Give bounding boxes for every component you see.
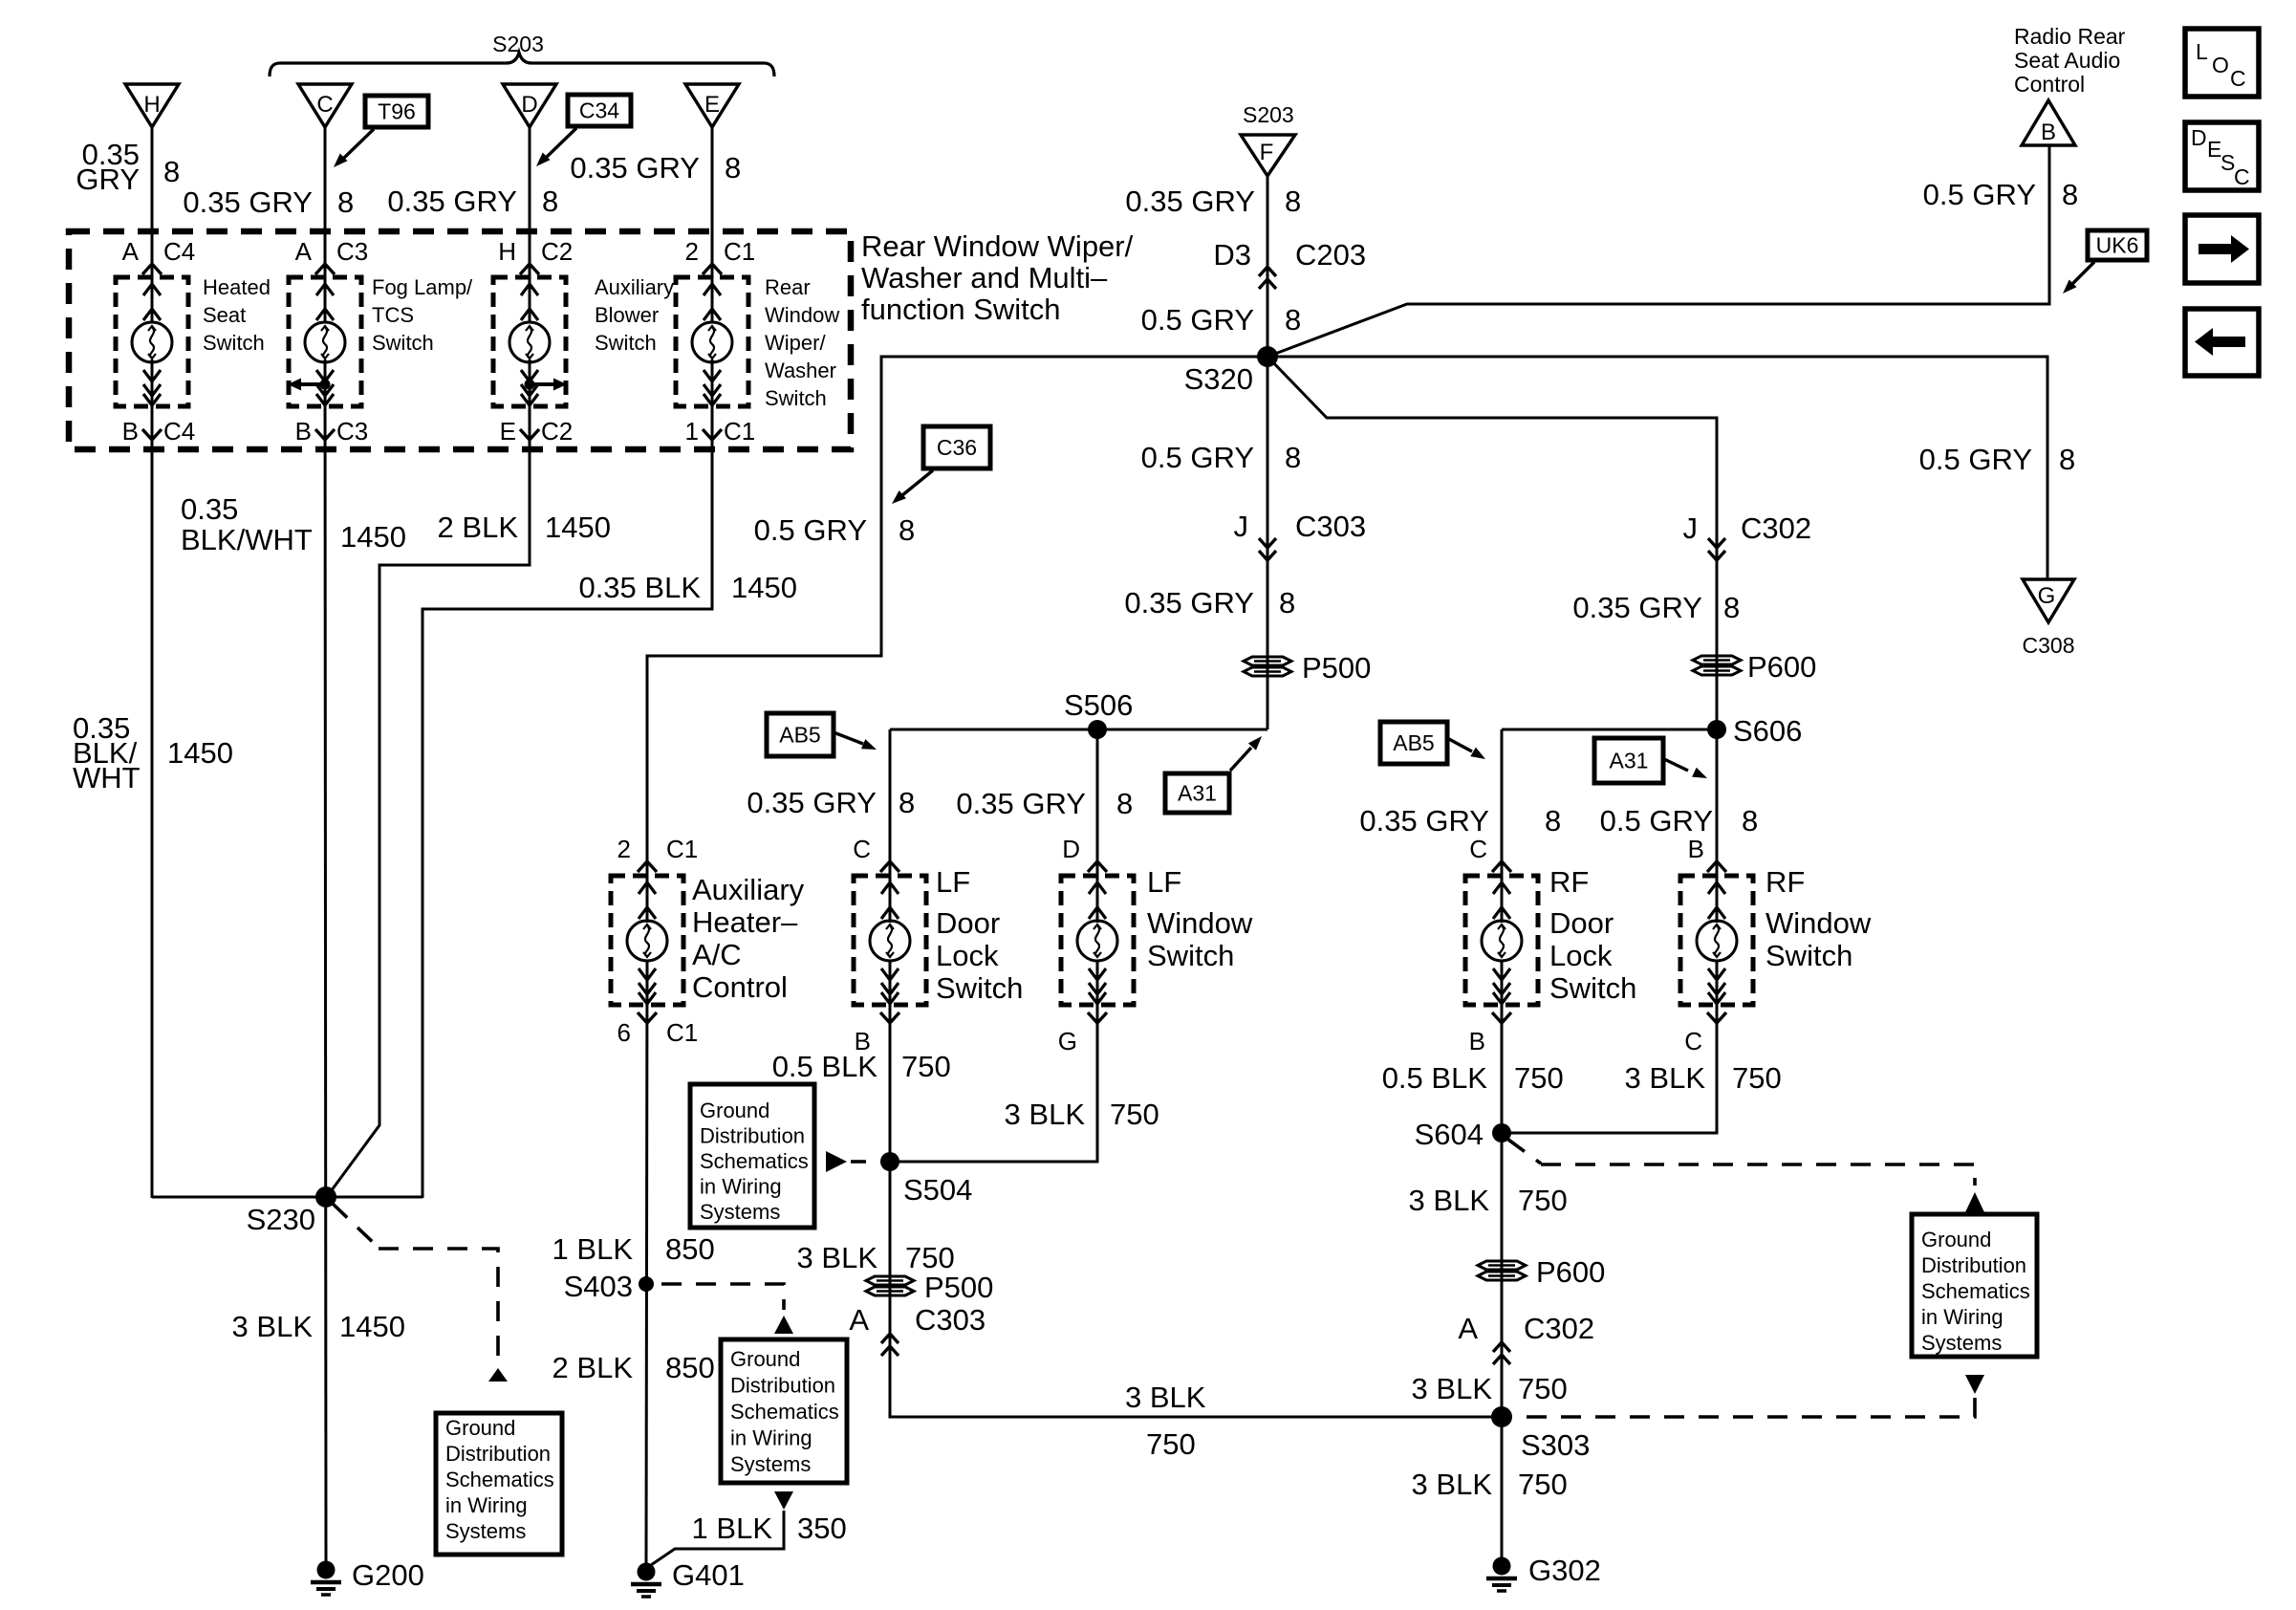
svg-text:0.35 BLK: 0.35 BLK [578, 571, 701, 604]
svg-text:S320: S320 [1184, 362, 1253, 396]
svg-text:Door: Door [936, 906, 1000, 940]
svg-text:Systems: Systems [730, 1452, 811, 1476]
svg-text:S506: S506 [1064, 688, 1133, 722]
label 1 BLK 850 (above S403) [552, 1232, 715, 1266]
svg-text:H: H [498, 237, 516, 266]
svg-text:P600: P600 [1747, 650, 1816, 684]
svg-text:C3: C3 [336, 417, 368, 446]
svg-text:0.35: 0.35 [181, 492, 238, 526]
svg-text:C203: C203 [1295, 238, 1366, 272]
svg-text:Switch: Switch [1765, 939, 1852, 972]
svg-text:Systems: Systems [700, 1200, 780, 1224]
svg-text:8: 8 [1285, 441, 1301, 474]
switch: RF Window Switch [1680, 876, 1753, 1005]
svg-text:A31: A31 [1610, 749, 1649, 773]
svg-text:Distribution: Distribution [700, 1124, 805, 1148]
svg-text:0.5 GRY: 0.5 GRY [754, 513, 867, 547]
svg-text:E: E [704, 92, 720, 118]
svg-text:1: 1 [685, 417, 699, 446]
node S403 [564, 1270, 654, 1303]
label 0.35 GRY 8 (LF window wire) [956, 787, 1133, 820]
svg-text:0.5 GRY: 0.5 GRY [1600, 804, 1713, 838]
wire S230 horizontal [152, 1196, 422, 1199]
svg-text:LF: LF [1147, 865, 1181, 899]
connector P500 (lower) [866, 1271, 993, 1304]
svg-text:0.35 GRY: 0.35 GRY [387, 185, 517, 218]
wire S506 horizontal [890, 729, 1267, 731]
svg-text:Blower: Blower [595, 303, 659, 327]
svg-text:Control: Control [692, 970, 788, 1004]
svg-text:in Wiring: in Wiring [730, 1426, 812, 1450]
svg-text:S303: S303 [1521, 1428, 1590, 1462]
svg-text:WHT: WHT [73, 761, 141, 794]
svg-text:1 BLK: 1 BLK [552, 1232, 634, 1266]
svg-text:C302: C302 [1524, 1312, 1594, 1345]
dashed wire box D to S303 [1516, 1398, 1975, 1417]
wire E: triangle E through switch, jog left [711, 127, 714, 321]
svg-text:G302: G302 [1528, 1554, 1601, 1587]
connector triangle G / C308 [2023, 579, 2075, 658]
label 0.35 BLK/WHT 1450 (wire H) [73, 711, 233, 794]
svg-text:in Wiring: in Wiring [445, 1493, 528, 1517]
label box C36 [923, 426, 990, 468]
svg-text:UK6: UK6 [2096, 233, 2139, 258]
svg-text:Switch: Switch [203, 331, 265, 355]
legend box DESC [2185, 122, 2259, 190]
label 3 BLK 750 (RF window bottom) [1625, 1061, 1782, 1095]
svg-text:Fog Lamp/: Fog Lamp/ [372, 275, 473, 299]
arrow into ground distribution note box D [1965, 1192, 1984, 1212]
note box Ground Distribution Schematics (middle-low, S403) [721, 1339, 847, 1483]
svg-text:AB5: AB5 [1393, 730, 1434, 755]
svg-text:C1: C1 [724, 417, 755, 446]
svg-text:A: A [295, 237, 313, 266]
svg-text:P600: P600 [1536, 1255, 1605, 1289]
svg-text:Seat Audio: Seat Audio [2014, 48, 2120, 73]
svg-text:C: C [1684, 1027, 1702, 1055]
svg-text:Switch: Switch [1147, 939, 1234, 972]
svg-text:Door: Door [1549, 906, 1614, 940]
svg-text:D: D [2191, 125, 2207, 150]
svg-text:F: F [1260, 140, 1274, 165]
label 0.35 BLK 1450 (wire E) [578, 571, 797, 604]
svg-text:Switch: Switch [372, 331, 434, 355]
svg-text:Schematics: Schematics [730, 1400, 839, 1424]
wire LF door lock B to S303 horizontal [890, 961, 1502, 1417]
svg-text:C2: C2 [541, 237, 573, 266]
connector triangle H [125, 84, 179, 127]
label 2 BLK 850 (below S403) [552, 1351, 715, 1384]
wire Aux Heater pin6 to S403 to G401 [646, 961, 647, 1563]
svg-text:Heated: Heated [203, 275, 271, 299]
label 0.5 GRY 8 (radio wire) [1923, 178, 2079, 211]
svg-text:Ground: Ground [730, 1347, 800, 1371]
svg-text:8: 8 [899, 786, 915, 819]
svg-text:J: J [1683, 511, 1699, 545]
svg-text:C302: C302 [1741, 511, 1811, 545]
svg-text:AB5: AB5 [779, 723, 820, 748]
svg-text:C303: C303 [915, 1303, 986, 1337]
wire F column S320 down to S506 horizontal [1267, 357, 1269, 729]
label 0.35 GRY 8 (above P600) [1572, 591, 1740, 624]
svg-text:750: 750 [1146, 1427, 1196, 1461]
pin A C3 (top) [295, 237, 369, 274]
pin E C2 (bottom) [500, 417, 574, 446]
legend box left-arrow [2185, 309, 2259, 376]
svg-text:750: 750 [1518, 1372, 1568, 1405]
label 0.5 GRY 8 (below S320) [1141, 441, 1302, 474]
svg-text:750: 750 [1110, 1098, 1159, 1131]
connector C303 A chevrons [849, 1303, 986, 1356]
label box C34 [568, 95, 631, 126]
svg-text:in Wiring: in Wiring [1921, 1305, 2004, 1329]
svg-text:D: D [1062, 835, 1080, 863]
svg-text:C34: C34 [579, 98, 619, 123]
label box AB5 (left) [767, 713, 834, 756]
svg-text:B: B [1688, 835, 1704, 863]
svg-text:A31: A31 [1178, 781, 1217, 806]
svg-text:Schematics: Schematics [1921, 1279, 2030, 1303]
svg-text:Seat: Seat [203, 303, 246, 327]
svg-text:G200: G200 [352, 1558, 424, 1592]
svg-text:Switch: Switch [1549, 971, 1636, 1005]
node S230 [247, 1186, 336, 1236]
svg-text:B: B [2041, 120, 2056, 145]
svg-text:0.5 GRY: 0.5 GRY [1919, 443, 2032, 476]
pin 2 C1 (Aux Heater top) [617, 835, 699, 872]
wire S320 to Radio Rear Seat Audio triangle B [1267, 145, 2049, 357]
label 0.35 BLK/WHT 1450 (wire C) [181, 492, 406, 556]
wire H: triangle H to S230 [151, 127, 154, 321]
label 3 BLK 750 (above P500 lower) [797, 1241, 955, 1274]
svg-text:8: 8 [1742, 804, 1758, 838]
connector P500 (upper) [1244, 651, 1371, 685]
svg-text:3 BLK: 3 BLK [1412, 1372, 1493, 1405]
svg-text:S203: S203 [1243, 102, 1294, 127]
connector triangle B (Radio Rear Seat Audio Control) [2014, 24, 2126, 97]
label 3 BLK 750 (below S604) [1409, 1184, 1568, 1217]
svg-text:Distribution: Distribution [1921, 1253, 2026, 1277]
connector C303 J chevrons [1234, 510, 1367, 560]
label 0.5 BLK 750 (RF door lock bottom) [1382, 1061, 1564, 1095]
svg-text:8: 8 [899, 513, 915, 547]
svg-text:S403: S403 [564, 1270, 633, 1303]
svg-text:3 BLK: 3 BLK [797, 1241, 878, 1274]
svg-text:A/C: A/C [692, 938, 742, 971]
dashed wire S230 to ground distribution note [333, 1204, 379, 1248]
note box Ground Distribution Schematics (right, S604) [1912, 1214, 2037, 1357]
svg-text:RF: RF [1549, 865, 1589, 899]
svg-text:Lock: Lock [936, 939, 999, 972]
label box AB5 (right) [1380, 722, 1447, 764]
svg-text:8: 8 [1285, 185, 1301, 218]
svg-text:2: 2 [685, 237, 699, 266]
wire F: triangle F to S320 [1267, 176, 1269, 357]
svg-text:8: 8 [2059, 443, 2075, 476]
svg-text:TCS: TCS [372, 303, 414, 327]
node S504 [880, 1152, 972, 1207]
wire 1 BLK 350 to G401 [651, 1511, 784, 1565]
svg-text:A: A [122, 237, 140, 266]
switch: LF Door Lock Switch [854, 876, 926, 1005]
Rear Window Wiper/Washer and Multi-function Switch outer dashed box [69, 231, 851, 449]
label 1 BLK 350 [692, 1512, 847, 1545]
svg-text:0.5 BLK: 0.5 BLK [772, 1050, 878, 1083]
node S303 [1491, 1406, 1590, 1462]
label box A31 (right) [1594, 738, 1663, 783]
wire C: triangle C through switch to G200 [324, 127, 327, 321]
pin C (LF door lock) [853, 835, 899, 872]
arrow into ground distribution note box A [488, 1368, 508, 1382]
svg-text:C: C [2234, 164, 2250, 189]
pin B C4 (bottom) [122, 417, 196, 446]
node S506 [1064, 688, 1133, 739]
svg-text:0.35 GRY: 0.35 GRY [1125, 185, 1255, 218]
svg-text:8: 8 [1545, 804, 1561, 838]
svg-text:C: C [853, 835, 871, 863]
pin 6 C1 (Aux Heater bottom) [617, 1012, 699, 1047]
svg-text:0.5 GRY: 0.5 GRY [1141, 303, 1254, 337]
pin C (RF window bottom) [1684, 1012, 1726, 1055]
svg-text:T96: T96 [378, 99, 416, 124]
wire LF window switch to S504 [890, 961, 1097, 1162]
arrow out of ground distribution note box D [1965, 1375, 1984, 1394]
pin B (RF window) [1688, 835, 1726, 872]
dashed wire S403 to ground distribution note [661, 1284, 784, 1310]
svg-text:A: A [849, 1303, 869, 1337]
label 0.5 BLK 750 (LF door lock bottom) [772, 1050, 951, 1083]
svg-text:2 BLK: 2 BLK [438, 511, 519, 544]
pin B C3 (bottom) [295, 417, 369, 446]
svg-text:3 BLK: 3 BLK [1625, 1061, 1706, 1095]
svg-text:8: 8 [1285, 303, 1301, 337]
svg-text:C1: C1 [724, 237, 755, 266]
wire LF window switch drop [1096, 729, 1099, 923]
label 0.35 GRY 8 (wire C) [183, 185, 354, 219]
svg-text:8: 8 [163, 155, 180, 188]
svg-text:Lock: Lock [1549, 939, 1613, 972]
svg-text:1450: 1450 [731, 571, 797, 604]
svg-text:Heater–: Heater– [692, 905, 798, 939]
label 3 BLK 750 (horizontal wire) [1125, 1381, 1206, 1461]
svg-text:750: 750 [1514, 1061, 1564, 1095]
arrow out of ground distribution note box C [774, 1491, 793, 1510]
wire S320 right to C308 G triangle [1267, 357, 2047, 579]
label 2 BLK 1450 (wire D) [438, 511, 611, 544]
svg-text:Window: Window [1147, 906, 1253, 940]
svg-text:Switch: Switch [765, 386, 827, 410]
pin B (LF door lock bottom) [855, 1012, 899, 1055]
svg-text:3 BLK: 3 BLK [1409, 1184, 1490, 1217]
switch: RF Door Lock Switch [1465, 876, 1538, 1005]
label 0.35 GRY 8 (wire H) [76, 138, 180, 196]
connector triangle C [298, 84, 352, 127]
label 0.5 GRY 8 (RF window wire) [1600, 804, 1759, 838]
wire S606 horizontal [1502, 729, 1717, 731]
label 0.5 GRY 8 (below C203) [1141, 303, 1302, 337]
svg-text:0.35 GRY: 0.35 GRY [183, 185, 313, 219]
svg-text:C: C [1469, 835, 1487, 863]
label 3 BLK 1450 (S230 to G200) [232, 1310, 405, 1343]
svg-text:C308: C308 [2023, 633, 2075, 658]
svg-text:1450: 1450 [340, 520, 406, 554]
svg-text:3 BLK: 3 BLK [1412, 1468, 1493, 1501]
connector triangle F (S203) [1241, 102, 1295, 176]
pin C (RF door lock) [1469, 835, 1511, 872]
svg-text:Ground: Ground [445, 1416, 515, 1440]
label Rear Window Wiper/Washer and Multi-function Switch [861, 229, 1134, 326]
svg-text:6: 6 [617, 1018, 631, 1047]
svg-text:0.5 GRY: 0.5 GRY [1923, 178, 2036, 211]
pin H C2 (top) [498, 237, 573, 274]
svg-text:L: L [2196, 39, 2208, 64]
svg-text:Distribution: Distribution [445, 1442, 551, 1466]
pin B (RF door lock bottom) [1469, 1012, 1511, 1055]
svg-text:E: E [500, 417, 516, 446]
svg-text:Switch: Switch [936, 971, 1023, 1005]
svg-text:2: 2 [617, 835, 631, 863]
svg-text:850: 850 [665, 1351, 715, 1384]
svg-text:D: D [521, 92, 537, 118]
wire S320 to Auxiliary Heater-A/C Control (0.5 GRY) [647, 357, 1267, 923]
wire RF window switch bottom to S604 [1502, 961, 1717, 1133]
switch: Auxiliary Heater A/C Control [611, 876, 683, 1005]
svg-text:8: 8 [542, 185, 558, 218]
svg-text:O: O [2212, 53, 2229, 77]
svg-text:Systems: Systems [445, 1519, 526, 1543]
switch: Fog Lamp/TCS Switch [289, 277, 361, 406]
pin 2 C1 (top) [685, 237, 756, 274]
label 0.5 GRY 8 (C36 wire) [754, 513, 916, 547]
svg-text:BLK/WHT: BLK/WHT [181, 523, 313, 556]
svg-text:in Wiring: in Wiring [700, 1175, 782, 1199]
label box T96 [365, 96, 428, 127]
svg-text:750: 750 [1732, 1061, 1782, 1095]
svg-text:Ground: Ground [700, 1099, 769, 1122]
label 3 BLK 750 (above S303) [1412, 1372, 1568, 1405]
label 0.35 GRY 8 (wire F) [1125, 185, 1301, 218]
svg-text:0.35 GRY: 0.35 GRY [1124, 586, 1254, 620]
ground G302 [1486, 1554, 1601, 1591]
svg-text:C4: C4 [163, 237, 195, 266]
svg-text:8: 8 [1116, 787, 1133, 820]
label box A31 (left) [1165, 773, 1229, 813]
node S606 [1707, 714, 1802, 748]
svg-text:A: A [1458, 1312, 1478, 1345]
label box UK6 [2088, 230, 2147, 260]
svg-text:3 BLK: 3 BLK [1125, 1381, 1206, 1414]
svg-text:8: 8 [337, 185, 354, 219]
svg-text:Wiper/: Wiper/ [765, 331, 826, 355]
svg-text:8: 8 [1279, 586, 1295, 620]
connector triangle D [503, 84, 556, 127]
label 0.35 GRY 8 (wire E) [570, 151, 741, 185]
svg-text:0.35 GRY: 0.35 GRY [570, 151, 700, 185]
svg-text:Window: Window [1765, 906, 1872, 940]
connector C302 A chevrons [1458, 1312, 1594, 1364]
switch: LF Window Switch [1061, 876, 1134, 1005]
connector C302 J chevrons [1683, 511, 1812, 560]
svg-text:P500: P500 [924, 1271, 993, 1304]
pin A C4 (top) [122, 237, 196, 274]
legend box LOC [2185, 29, 2259, 97]
svg-text:S604: S604 [1415, 1118, 1484, 1151]
label 0.35 GRY 8 (wire D) [387, 185, 558, 218]
svg-text:Systems: Systems [1921, 1331, 2002, 1355]
label 3 BLK 750 (LF window bottom) [1005, 1098, 1159, 1131]
note box Ground Distribution Schematics (left, S230) [436, 1413, 562, 1555]
ground G200 [311, 1558, 424, 1595]
svg-text:0.35 GRY: 0.35 GRY [1572, 591, 1702, 624]
svg-text:Window: Window [765, 303, 839, 327]
svg-text:Switch: Switch [595, 331, 657, 355]
connector C203 (D3) chevrons [1213, 238, 1366, 289]
svg-text:750: 750 [905, 1241, 955, 1274]
arrow from ground distribution note box B to S504 [826, 1151, 866, 1172]
svg-text:Control: Control [2014, 72, 2085, 97]
label 0.35 GRY 8 (RF door lock wire) [1359, 804, 1561, 838]
svg-text:C2: C2 [541, 417, 573, 446]
svg-text:Washer: Washer [765, 359, 836, 382]
svg-text:3 BLK: 3 BLK [232, 1310, 314, 1343]
wire D: triangle D through switch, jog left [529, 127, 531, 321]
label 0.35 GRY 8 (LF door lock wire) [747, 786, 915, 819]
svg-text:C3: C3 [336, 237, 368, 266]
pin D (LF window) [1062, 835, 1107, 872]
svg-text:Rear: Rear [765, 275, 811, 299]
svg-text:S230: S230 [247, 1203, 315, 1236]
svg-text:G: G [2038, 583, 2056, 609]
svg-text:Rear Window Wiper/: Rear Window Wiper/ [861, 229, 1134, 263]
svg-text:H: H [143, 92, 160, 118]
svg-text:1450: 1450 [545, 511, 611, 544]
svg-text:8: 8 [2062, 178, 2078, 211]
svg-text:Radio Rear: Radio Rear [2014, 24, 2126, 49]
svg-text:C4: C4 [163, 417, 195, 446]
dashed wire S604 to ground distribution note [1508, 1140, 1541, 1164]
svg-text:B: B [295, 417, 312, 446]
svg-text:350: 350 [797, 1512, 847, 1545]
connector P600 (lower) [1478, 1255, 1605, 1289]
ground G401 [631, 1558, 745, 1597]
node S604 [1415, 1118, 1511, 1151]
svg-text:Ground: Ground [1921, 1228, 1991, 1251]
svg-text:Washer and Multi–: Washer and Multi– [861, 261, 1108, 294]
svg-text:S606: S606 [1733, 714, 1802, 748]
legend box right-arrow [2185, 215, 2259, 283]
wire RF door lock B through S604 S303 to G302 [1501, 961, 1504, 1557]
svg-text:G401: G401 [672, 1558, 745, 1592]
label 0.5 GRY 8 (C308 wire) [1919, 443, 2076, 476]
svg-text:Distribution: Distribution [730, 1374, 835, 1398]
connector P600 (upper) [1693, 650, 1816, 684]
svg-text:750: 750 [1518, 1184, 1568, 1217]
svg-text:C303: C303 [1295, 510, 1366, 543]
svg-text:Auxiliary: Auxiliary [692, 873, 805, 906]
svg-text:3 BLK: 3 BLK [1005, 1098, 1086, 1131]
svg-text:P500: P500 [1302, 651, 1371, 685]
svg-text:G: G [1058, 1027, 1077, 1055]
svg-text:0.35 GRY: 0.35 GRY [747, 786, 877, 819]
svg-text:0.5 BLK: 0.5 BLK [1382, 1061, 1488, 1095]
node S320 [1184, 346, 1278, 396]
connector triangle E [685, 84, 739, 127]
label 0.35 GRY 8 (above P500) [1124, 586, 1295, 620]
svg-text:0.5 GRY: 0.5 GRY [1141, 441, 1254, 474]
svg-text:1450: 1450 [339, 1310, 405, 1343]
switch: Auxiliary Blower Switch [493, 277, 566, 406]
svg-text:function Switch: function Switch [861, 293, 1061, 326]
